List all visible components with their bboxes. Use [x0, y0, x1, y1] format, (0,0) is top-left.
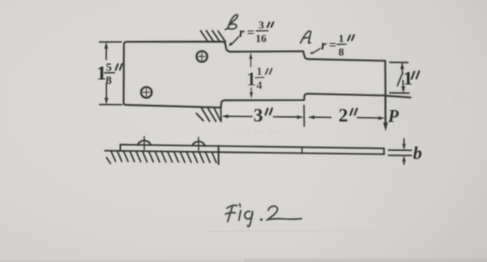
- dimension 1-5/8 label: [97, 60, 112, 87]
- svg-text:3: 3: [259, 20, 265, 32]
- svg-text:th of the bar on: th of the bar on: [232, 126, 293, 137]
- screw mark upper (circle-cross): [197, 51, 208, 62]
- svg-text:P: P: [387, 106, 399, 126]
- hatch marks above step B: [201, 31, 226, 42]
- side bar left end cap: [119, 145, 121, 151]
- dimension 1-5/8 line and arrows: [105, 45, 107, 102]
- screw dome 2 (side view): [193, 141, 205, 145]
- dimension 1 inch arrows: [401, 64, 403, 72]
- ghost bleed-through text: [392, 88, 466, 115]
- thickness b arrows: [403, 139, 405, 148]
- dimension 1-1/4 label: [246, 64, 262, 92]
- dimension 3 inch right segment and arrow: [274, 116, 299, 118]
- screw dome 1 centerline: [143, 137, 145, 150]
- svg-text:1: 1: [339, 33, 345, 45]
- period of Fig.: [260, 218, 263, 221]
- svg-text:3: 3: [254, 105, 264, 126]
- svg-text:=: =: [247, 25, 254, 40]
- dimension 2 inch right segment and arrow: [358, 117, 378, 119]
- hatch marks below bottom step B: [196, 108, 220, 121]
- dimension 3 inch left arrow and line: [222, 115, 229, 119]
- extension line at step (3/2 boundary): [303, 105, 305, 126]
- dimension 1-5/8 extension ticks: [100, 42, 123, 105]
- dimension 2 inch left arrow and line: [308, 115, 315, 119]
- screw dome 2 centerline: [198, 137, 200, 150]
- svg-text:8: 8: [339, 47, 345, 59]
- label r=3/16 (printed): [239, 20, 267, 46]
- clamp right edge (side view): [218, 146, 220, 164]
- svg-text:16: 16: [256, 33, 268, 45]
- svg-text:8: 8: [106, 73, 112, 87]
- side bar bottom / clamp surface line: [105, 151, 384, 155]
- svg-text:=: =: [329, 37, 336, 52]
- dimension 1-1/4 line and arrows: [250, 55, 252, 97]
- dimension 3 inch label: [254, 105, 264, 126]
- dimension 1 inch label: [403, 69, 413, 90]
- label B (handwritten): [225, 15, 237, 30]
- handwritten slash near 1 inch: [397, 73, 402, 86]
- extension line at step B bottom: [220, 108, 222, 122]
- caption Fig. 2 (handwritten): [226, 205, 302, 226]
- faint smudge right margin: [453, 96, 471, 106]
- bottom edge overshoot at right corner: [385, 96, 411, 98]
- section boundary tick on side bar: [301, 147, 303, 153]
- svg-text:r: r: [321, 39, 327, 54]
- label A (handwritten): [301, 31, 311, 43]
- thickness b ticks: [389, 150, 412, 155]
- faint rule under caption: [208, 229, 372, 232]
- side bar right end cap: [383, 148, 385, 154]
- bottom edge shadow: [0, 260, 487, 262]
- label r=1/8 (printed): [321, 33, 345, 59]
- force P line and arrow: [384, 96, 386, 125]
- svg-text:1: 1: [256, 64, 262, 78]
- side bar top line: [120, 145, 384, 149]
- bar outline (top view): [124, 42, 386, 108]
- leader arrow to fillet B: [231, 37, 239, 45]
- screw dome 1 (side view): [138, 141, 151, 146]
- dimension 2 inch label: [339, 106, 349, 127]
- svg-text:ult of the par: ult of the par: [398, 104, 450, 115]
- i dot of Fig: [239, 204, 242, 207]
- svg-text:4: 4: [256, 78, 262, 92]
- ground hatching (side view): [107, 151, 217, 164]
- dimension 1 inch ticks (right): [390, 62, 409, 93]
- svg-text:2: 2: [339, 106, 349, 127]
- svg-text:r: r: [239, 26, 245, 41]
- screw mark lower (circle-cross): [141, 87, 152, 98]
- svg-text:1: 1: [246, 68, 256, 90]
- svg-text:5: 5: [106, 60, 112, 74]
- leader arrow to fillet A: [312, 49, 320, 54]
- svg-text:b: b: [413, 143, 422, 163]
